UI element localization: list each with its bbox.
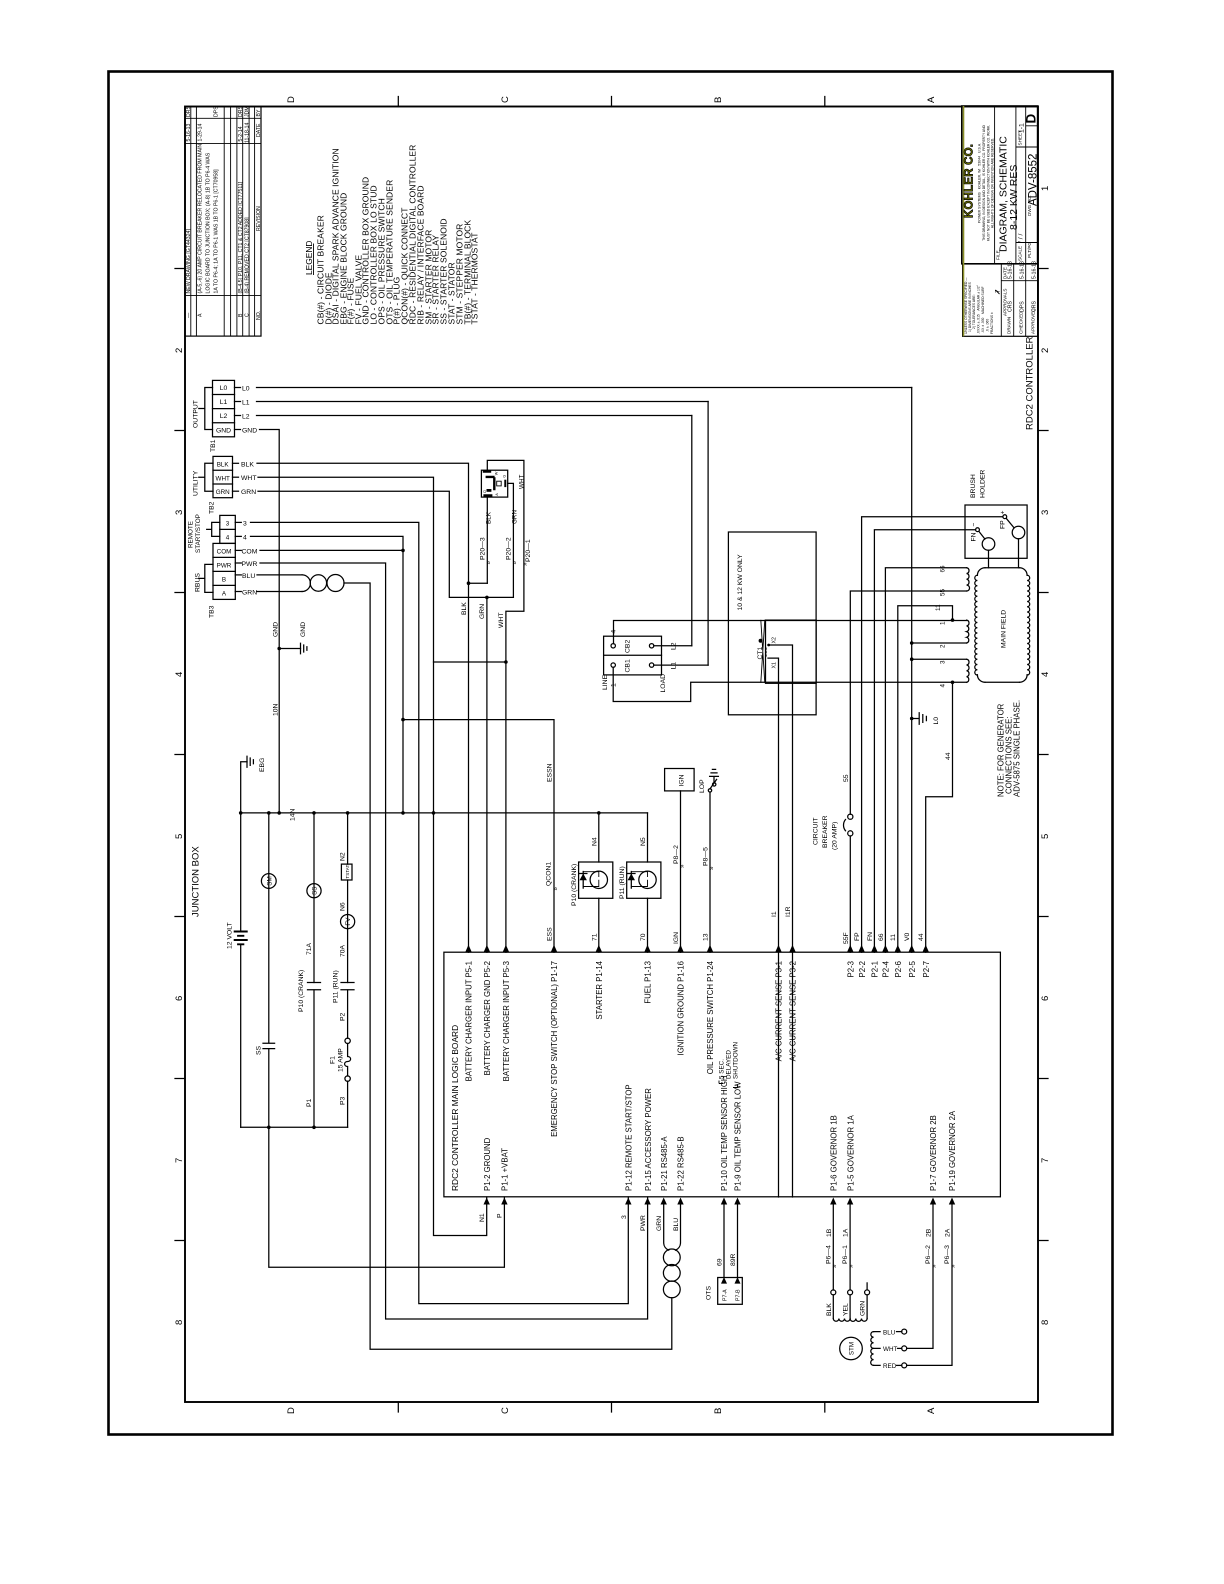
contact SS gap [263, 1044, 275, 1049]
svg-text:L0: L0 [933, 717, 940, 725]
svg-text:D: D [483, 490, 487, 493]
pin arrow P1-13 [644, 945, 650, 952]
wire stub 4 [235, 535, 241, 537]
FN brush arm [979, 531, 985, 539]
svg-text:1A: 1A [843, 1228, 850, 1237]
svg-text:P8—5: P8—5 [703, 847, 710, 866]
svg-text:JDM: JDM [245, 106, 251, 117]
svg-text:66: 66 [878, 933, 885, 941]
ground LO stud [910, 717, 914, 721]
svg-text:A: A [926, 96, 937, 103]
wire 3 tap [912, 658, 967, 660]
FP brush circle [1012, 526, 1025, 539]
YEL terminal circle [848, 1290, 853, 1295]
svg-text:P2-5: P2-5 [908, 960, 917, 977]
svg-text:GRN: GRN [512, 510, 519, 524]
svg-text:P1-10 OIL TEMP SENSOR HIGH: P1-10 OIL TEMP SENSOR HIGH [720, 1075, 729, 1191]
zone ticks left edge [175, 269, 185, 1241]
bottom pin arrow P1-15 [644, 1198, 650, 1205]
svg-text:2: 2 [1040, 348, 1051, 353]
bottom pin arrow P1-7 [930, 1198, 936, 1205]
svg-text:2B: 2B [926, 1228, 933, 1237]
svg-text:D: D [1024, 114, 1039, 124]
svg-text:.XX ± .030 MACHINED SURF: .XX ± .030 MACHINED SURF [981, 286, 985, 333]
wire 89R [737, 1205, 739, 1278]
svg-text:3: 3 [621, 1215, 628, 1219]
svg-text:(A-5,-6) 20 AMP CIRCUIT BREAKE: (A-5,-6) 20 AMP CIRCUIT BREAKER RELOCATE… [198, 144, 204, 294]
svg-text:3: 3 [1040, 510, 1051, 515]
svg-text:5-16-13: 5-16-13 [1008, 261, 1014, 279]
wire VBAT run [269, 1127, 505, 1267]
svg-text:B: B [238, 313, 244, 317]
wire L0 V0 down [911, 388, 913, 953]
wire GRN rbus [257, 591, 302, 593]
svg-text:12 VOLT: 12 VOLT [227, 922, 234, 949]
P20 hood wire WHT [487, 460, 524, 662]
svg-text:5-2-14: 5-2-14 [238, 126, 244, 141]
svg-text:TSTAT: TSTAT [345, 865, 350, 879]
CT1 secondary coil [765, 647, 768, 657]
wire BLK [257, 463, 469, 583]
svg-text:N5: N5 [640, 837, 647, 846]
circuit breaker CB1 CB2 box [604, 636, 662, 675]
svg-text:P2-4: P2-4 [882, 960, 891, 977]
relay P10 coil [590, 871, 607, 888]
svg-text:.XXXX ± .015 ANGULAR ± 1/2°: .XXXX ± .015 ANGULAR ± 1/2° [977, 284, 981, 334]
svg-text:55F: 55F [843, 932, 850, 944]
circuit breaker 20 amp [848, 814, 853, 819]
svg-text:I1: I1 [771, 911, 778, 917]
svg-text:P2-6: P2-6 [894, 961, 903, 977]
svg-text:FN: FN [971, 532, 978, 541]
svg-text:BLK: BLK [241, 461, 254, 468]
pin arrow P1-14 [596, 945, 602, 952]
pin arrow P2-1 [871, 945, 877, 952]
svg-text:SCALE: SCALE [1018, 246, 1023, 261]
svg-text:/ / /: / / / [1018, 233, 1025, 243]
svg-text:N2: N2 [340, 852, 347, 861]
wire 2 tap [912, 642, 967, 644]
svg-text:6: 6 [174, 996, 185, 1001]
svg-text:FUEL P1-13: FUEL P1-13 [644, 961, 653, 1004]
svg-text:»: » [848, 1264, 855, 1268]
svg-text:P2: P2 [340, 1012, 347, 1021]
starter solenoid SS [307, 884, 321, 898]
svg-text:ADV-8552: ADV-8552 [1028, 154, 1040, 206]
svg-text:P20—3: P20—3 [480, 537, 487, 560]
svg-text:L0: L0 [242, 386, 250, 393]
terminal block TB3 [220, 515, 236, 543]
svg-text:69: 69 [717, 1258, 724, 1266]
terminal block TB2 [213, 456, 233, 497]
starter motor SM [261, 874, 276, 889]
svg-text:3: 3 [226, 521, 230, 528]
svg-text:GRN: GRN [656, 1216, 663, 1231]
svg-text:PWR: PWR [640, 1215, 647, 1231]
wire 13 oil pressure [709, 792, 711, 952]
svg-text:N4: N4 [591, 837, 598, 846]
svg-text:C: C [245, 313, 251, 317]
svg-text:P7-A: P7-A [723, 1289, 729, 1301]
svg-text:P2-2: P2-2 [858, 961, 867, 977]
wire L2 down [691, 416, 693, 646]
svg-text:5: 5 [1040, 834, 1051, 839]
svg-text:44: 44 [918, 933, 925, 941]
wire WHT N1 [258, 477, 487, 1235]
svg-text:»: » [511, 561, 518, 565]
wire 11 tap [898, 606, 953, 953]
wire 69 [723, 1205, 725, 1278]
svg-text:ESS: ESS [547, 927, 554, 941]
svg-text:LOGIC BOARD TO JUNCTION BOX; (: LOGIC BOARD TO JUNCTION BOX; (A-8) 1B TO… [206, 152, 212, 293]
svg-text:P1-6 GOVERNOR 1B: P1-6 GOVERNOR 1B [830, 1115, 839, 1191]
svg-text:REVISION: REVISION [256, 206, 262, 231]
svg-text:A: A [198, 313, 204, 317]
svg-text:EMERGENCY STOP SWITCH (OPTIONA: EMERGENCY STOP SWITCH (OPTIONAL) P1-17 [550, 961, 559, 1137]
wire stub GRN [233, 490, 239, 492]
title block internal lines [995, 106, 1026, 264]
svg-text:2: 2 [940, 644, 947, 648]
svg-text:DRS: DRS [238, 106, 244, 117]
svg-text:11: 11 [935, 604, 942, 611]
svg-text:A: A [495, 493, 499, 496]
svg-text:B: B [222, 577, 226, 584]
svg-text:P1-19 GOVERNOR 2A: P1-19 GOVERNOR 2A [948, 1110, 957, 1191]
svg-text:70A: 70A [339, 944, 346, 957]
fuse F1 body [345, 1044, 351, 1077]
svg-text:CIRCUIT: CIRCUIT [813, 817, 820, 845]
svg-text:A: A [926, 1407, 937, 1414]
svg-text:LOP: LOP [699, 779, 706, 793]
svg-text:SS: SS [312, 886, 319, 894]
bottom pin arrow P1-6 [830, 1198, 836, 1205]
svg-text:PWR: PWR [242, 561, 258, 568]
svg-text:55: 55 [940, 588, 947, 596]
svg-text:P6—3: P6—3 [944, 1245, 951, 1264]
svg-text:REMOTE: REMOTE [188, 521, 195, 548]
svg-text:P2-1: P2-1 [871, 961, 880, 977]
wire SS branch [313, 813, 315, 1127]
wire stub GND [235, 429, 241, 431]
pin arrow P1-24 [707, 945, 713, 952]
svg-text:10N: 10N [273, 703, 280, 716]
title block frame [962, 106, 1038, 264]
svg-text:L1: L1 [242, 400, 250, 407]
brush holder box [965, 505, 1027, 558]
svg-text:L1: L1 [670, 662, 677, 670]
svg-text:X1: X1 [771, 662, 777, 668]
svg-text:P2-3: P2-3 [847, 961, 856, 977]
wire L2 [257, 415, 692, 417]
svg-text:TSTAT - THERMOSTAT: TSTAT - THERMOSTAT [470, 233, 480, 325]
svg-text:P6—1: P6—1 [842, 1245, 849, 1264]
thermostat TSTAT [341, 864, 352, 880]
svg-text:FP: FP [1000, 520, 1007, 529]
svg-text:BRUSH: BRUSH [970, 474, 977, 498]
wire CB1 line side [613, 667, 966, 701]
svg-text:COM: COM [217, 549, 232, 556]
terminal block TB1 [213, 380, 235, 436]
svg-text:PWR: PWR [217, 563, 232, 570]
svg-text:P1-9 OIL TEMP SENSOR LOW: P1-9 OIL TEMP SENSOR LOW [734, 1081, 743, 1191]
svg-text:1B: 1B [826, 1228, 833, 1237]
svg-text:C: C [500, 1407, 511, 1414]
wire 1B governor [832, 1205, 834, 1291]
svg-text:(B-4,5) P10, P11, CT1 & CT2 AD: (B-4,5) P10, P11, CT1 & CT2 ADDED [CT775… [238, 181, 244, 293]
wire GRN [258, 491, 487, 597]
wire X2 to P3-2 [768, 645, 793, 1197]
svg-text:GND: GND [273, 622, 280, 637]
svg-text:BLU: BLU [673, 1218, 680, 1231]
svg-text:JUNCTION BOX: JUNCTION BOX [191, 846, 202, 917]
wire FN brush to field [988, 550, 990, 567]
svg-text:IGNITION GROUND P1-16: IGNITION GROUND P1-16 [677, 961, 686, 1055]
svg-text:A: A [222, 591, 227, 598]
svg-text:EBG: EBG [259, 758, 266, 772]
svg-text:N1: N1 [479, 1213, 486, 1222]
svg-text:OTS: OTS [706, 1286, 713, 1300]
svg-text:15 AMP: 15 AMP [338, 1048, 345, 1072]
svg-text:4: 4 [243, 534, 247, 541]
bottom pin arrow P1-19 [949, 1198, 955, 1205]
ignition module IGN box [665, 769, 695, 791]
CT1 box 10-12KW [728, 532, 816, 715]
wire IGN [680, 791, 682, 952]
revision table row lines [191, 107, 255, 337]
wire FV branch [347, 813, 349, 1127]
wire stub L2 [235, 415, 241, 417]
svg-text:DRAWN: DRAWN [1007, 317, 1012, 334]
svg-text:L2: L2 [242, 414, 250, 421]
wire 4 COM ESSN [251, 536, 404, 813]
svg-text:3: 3 [174, 510, 185, 515]
svg-text:P1-2 GROUND: P1-2 GROUND [483, 1137, 492, 1191]
svg-text:NO.: NO. [256, 311, 262, 320]
svg-text:B: B [713, 1408, 724, 1414]
svg-text:»: » [522, 562, 529, 566]
svg-text:7: 7 [1040, 1158, 1051, 1163]
svg-text:X2: X2 [771, 637, 777, 643]
svg-text:P2-7: P2-7 [922, 961, 931, 977]
bottom pin arrow P1-12 [625, 1198, 631, 1205]
stator winding 3-4 [967, 659, 969, 682]
svg-text:5-16-13: 5-16-13 [1032, 261, 1038, 279]
svg-text:YEL: YEL [843, 1303, 850, 1316]
wire N4 [598, 813, 600, 862]
wire positive bus [241, 1126, 348, 1128]
inner drawing frame [185, 107, 1038, 1403]
twisted pair circle 2 [327, 575, 344, 592]
svg-text:2: 2 [174, 348, 185, 353]
pin arrow P2-6 [895, 945, 901, 952]
svg-text:BATTERY CHARGER INPUT P5-1: BATTERY CHARGER INPUT P5-1 [465, 961, 474, 1081]
svg-text:G: G [503, 475, 507, 478]
svg-text:DELAYED: DELAYED [726, 1050, 733, 1079]
wire BLU into pair [676, 1205, 681, 1251]
svg-text:1: 1 [940, 621, 947, 625]
svg-text:FP: FP [854, 932, 861, 941]
FP brush arm [1006, 518, 1014, 527]
svg-text:8-12 KW RES: 8-12 KW RES [1008, 165, 1020, 230]
stator winding 1-2 [967, 620, 969, 643]
svg-text:GND: GND [242, 428, 257, 435]
svg-text:5-16-13: 5-16-13 [186, 124, 192, 142]
svg-text:BLU: BLU [242, 573, 255, 580]
svg-text:71A: 71A [306, 942, 313, 955]
pin arrow P2-3 [847, 945, 853, 952]
svg-text:SM: SM [266, 876, 273, 885]
svg-text:P1-5 GOVERNOR 1A: P1-5 GOVERNOR 1A [846, 1114, 855, 1191]
svg-text:8: 8 [174, 1320, 185, 1325]
wire BLK junction to P5-1 [469, 583, 488, 952]
svg-text:1-29-14: 1-29-14 [198, 124, 204, 142]
wire ESSN run [403, 720, 554, 953]
pin arrow P2-5 [909, 945, 915, 952]
svg-text:10 & 12 KW ONLY: 10 & 12 KW ONLY [737, 554, 744, 611]
svg-text:13: 13 [703, 933, 710, 941]
svg-text:WHT: WHT [498, 613, 505, 628]
svg-text:11: 11 [890, 934, 897, 941]
svg-text:BATTERY CHARGER INPUT P5-3: BATTERY CHARGER INPUT P5-3 [502, 961, 511, 1081]
svg-text:FRACTIONS ±: FRACTIONS ± [990, 312, 994, 334]
svg-text:WHT: WHT [518, 475, 525, 489]
wire 3 [251, 522, 629, 1303]
svg-text:BLK: BLK [826, 1303, 833, 1316]
svg-text:N6: N6 [340, 902, 347, 911]
FP terminal circle [1003, 515, 1007, 519]
svg-text:TB2: TB2 [209, 501, 216, 514]
svg-text:C: C [500, 96, 511, 103]
relay P11 coil [639, 871, 656, 888]
svg-text:CB1: CB1 [625, 659, 632, 672]
fuel valve FV [341, 915, 355, 929]
svg-text:LEGEND: LEGEND [304, 241, 314, 275]
svg-text:BY: BY [256, 109, 262, 116]
pin arrow P5-1 [465, 945, 471, 952]
wire stub WHT [233, 476, 239, 478]
svg-text:ADV-5875 SINGLE PHASE.: ADV-5875 SINGLE PHASE. [1013, 700, 1022, 797]
svg-text:GRN: GRN [241, 489, 256, 496]
svg-text:ALL RIGHTS OF DESIGN OR INVENT: ALL RIGHTS OF DESIGN OR INVENTION ARE RE… [991, 138, 995, 228]
ground GND controller box [301, 643, 307, 654]
svg-text:BLK: BLK [486, 511, 493, 524]
pin arrow P5-3 [503, 945, 509, 952]
svg-text:11-18-14: 11-18-14 [245, 123, 251, 143]
fuse F1 circle top [345, 1038, 350, 1043]
stm winding 2 [871, 1332, 874, 1366]
bottom pin arrow P1-1 [501, 1198, 507, 1205]
wire stub B [235, 574, 241, 576]
wire P20-2 pin [508, 483, 514, 597]
svg-text:WHT: WHT [883, 1346, 897, 1353]
wire 71 starter [598, 898, 600, 952]
FN terminal circle [976, 528, 980, 532]
svg-text:1: 1 [1040, 186, 1051, 191]
wire FP [862, 517, 1003, 953]
svg-text:P10 (CRANK): P10 (CRANK) [571, 864, 578, 906]
svg-text:P3: P3 [340, 1096, 347, 1105]
wire stub COM [235, 549, 241, 551]
contact P10 CRANK gap [308, 983, 321, 990]
wire ground stub [279, 648, 300, 650]
revision table column lines [185, 118, 261, 295]
svg-text:STM: STM [849, 1342, 856, 1355]
svg-text:70: 70 [640, 933, 647, 941]
svg-text:NEW DRAWING [GT44324]: NEW DRAWING [GT44324] [186, 229, 192, 294]
svg-text:L2: L2 [220, 413, 228, 420]
svg-text:HOLDER: HOLDER [980, 470, 987, 498]
svg-text:P: P [497, 1213, 504, 1218]
stator winding 66-55 [967, 568, 970, 591]
svg-text:(20 AMP): (20 AMP) [832, 822, 839, 850]
bottom pin arrow P1-5 [847, 1198, 853, 1205]
svg-text:1A TO P6-4; 1A TO P6-1 WAS 1B: 1A TO P6-4; 1A TO P6-1 WAS 1B TO P6-1 [C… [214, 169, 220, 294]
stepper motor STM [840, 1337, 863, 1360]
svg-text:V0: V0 [904, 932, 911, 941]
wire stub 3 [235, 521, 241, 523]
svg-text:RDC2 CONTROLLER MAIN LOGIC BOA: RDC2 CONTROLLER MAIN LOGIC BOARD [450, 1025, 460, 1191]
svg-text:L2: L2 [670, 642, 677, 650]
bottom pin arrow P1-22 [677, 1198, 683, 1205]
svg-text:P10 (CRANK): P10 (CRANK) [298, 970, 305, 1012]
RDC2 controller main logic board [444, 952, 1001, 1197]
svg-text:+: + [1000, 511, 1007, 515]
title block olive edge line [963, 106, 965, 336]
svg-text:»: » [708, 866, 715, 870]
pin arrow P1-16 [677, 945, 683, 952]
fuse F1 circle bottom [345, 1076, 350, 1081]
OTS arrow A [721, 1277, 727, 1284]
svg-text:5-16-13: 5-16-13 [1020, 261, 1026, 279]
svg-text:DATE: DATE [256, 123, 262, 137]
TB3 bracket remote [207, 522, 220, 536]
FN brush circle [982, 538, 995, 551]
svg-text:OUTPUT: OUTPUT [193, 400, 200, 428]
svg-text:GRN: GRN [860, 1301, 867, 1316]
svg-text:P1-12 REMOTE START/STOP: P1-12 REMOTE START/STOP [625, 1084, 634, 1191]
sender OTS box [718, 1278, 743, 1305]
svg-text:2A: 2A [945, 1228, 952, 1237]
svg-text:8: 8 [1040, 1320, 1051, 1325]
svg-text:POWER SYSTEMS KOHLER, WI 5: POWER SYSTEMS KOHLER, WI 53044 U.S.A. [978, 143, 982, 223]
bottom pin arrow P1-10 [721, 1198, 727, 1205]
svg-text:L1: L1 [220, 399, 228, 406]
CT1 body rect [766, 620, 817, 683]
svg-text:4: 4 [940, 684, 947, 688]
svg-text:P6—2: P6—2 [925, 1245, 932, 1264]
relay P10 CRANK box [579, 862, 613, 898]
svg-text:UTILITY: UTILITY [193, 470, 200, 496]
svg-text:START/STOP: START/STOP [195, 514, 202, 553]
wire COM [260, 549, 403, 551]
svg-text:RBUS: RBUS [195, 573, 202, 592]
wire 66 tap [885, 568, 966, 953]
wire GRN junction to P5-2 [487, 597, 514, 952]
pin arrow P2-2 [858, 945, 864, 952]
LOP ground [710, 769, 719, 783]
svg-text:»: » [831, 1264, 838, 1268]
svg-text:P20—2: P20—2 [506, 537, 513, 560]
svg-text:P11 (RUN): P11 (RUN) [333, 970, 340, 1003]
svg-text:P1-22 RS485-B: P1-22 RS485-B [677, 1136, 686, 1191]
TB3 bracket rbus [199, 564, 213, 592]
svg-text:L0: L0 [220, 385, 228, 392]
wire 2A governor [907, 1205, 952, 1366]
GRN terminal circle [865, 1290, 870, 1295]
svg-text:4: 4 [174, 672, 185, 677]
RED terminal circle [902, 1363, 907, 1368]
wire stub PWR [235, 562, 241, 564]
